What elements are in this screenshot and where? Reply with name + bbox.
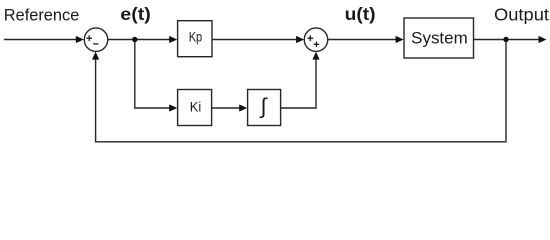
svg-text:Output: Output xyxy=(494,5,549,25)
svg-text:Kp: Kp xyxy=(189,30,203,45)
svg-text:System: System xyxy=(411,30,468,48)
svg-text:u(t): u(t) xyxy=(345,4,376,24)
svg-text:e(t): e(t) xyxy=(120,4,151,24)
svg-text:Reference: Reference xyxy=(4,6,80,25)
svg-text:Ki: Ki xyxy=(190,100,202,115)
